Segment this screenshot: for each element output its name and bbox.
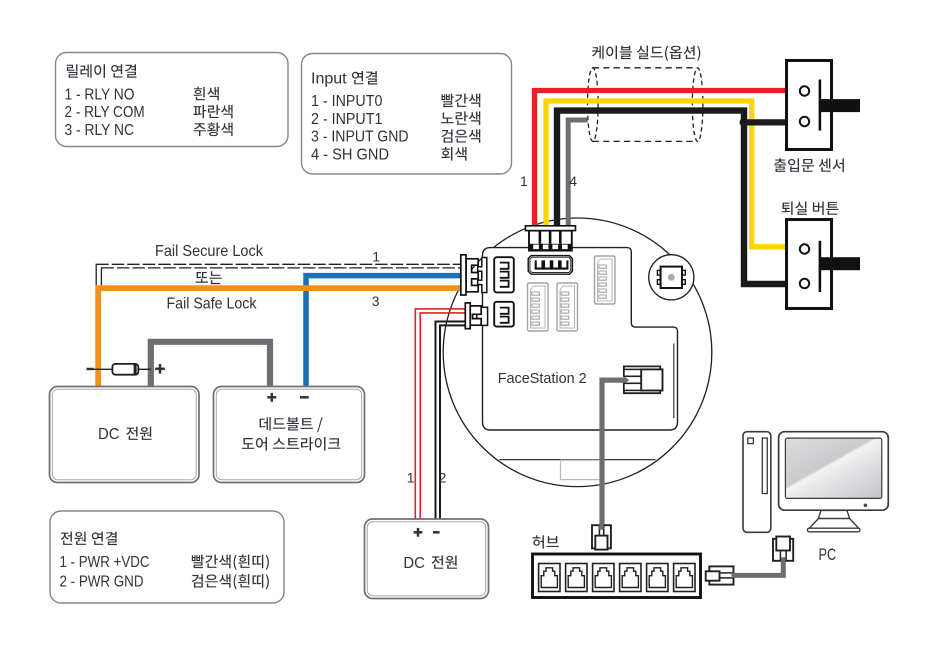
wire: INPUT1 yellow	[546, 101, 787, 247]
label 케이블 실드(옵션) cable shield	[592, 46, 700, 61]
label 전원 (power supply 2)	[432, 555, 457, 568]
input legend box	[302, 54, 512, 175]
door sensor (출입문 센서)	[787, 61, 861, 150]
label 또는 (or)	[196, 271, 222, 284]
label relay legend title 릴레이 연결	[67, 64, 136, 78]
ethernet port on PCB	[624, 366, 663, 393]
svg-text:2: 2	[439, 469, 447, 485]
svg-text:4 - SH GND: 4 - SH GND	[311, 146, 389, 163]
wire: deadbolt + gray	[151, 342, 270, 388]
label power legend title 전원 연결	[61, 532, 117, 546]
cable shield (optional) dashed cylinder	[593, 68, 698, 142]
DC power supply 2 (DC 전원)	[365, 519, 489, 599]
label 빨간색(흰띠)	[192, 555, 269, 571]
svg-text:3 - RLY NC: 3 - RLY NC	[65, 122, 135, 139]
label 허브 hub	[533, 535, 559, 549]
tamper switch	[649, 255, 694, 300]
svg-text:Fail Secure Lock: Fail Secure Lock	[155, 243, 264, 260]
minus sign at DC1	[87, 368, 94, 371]
unused connector (gray) 2	[557, 283, 578, 331]
wire: PWR GND black(white stripe)	[436, 322, 466, 520]
label 파란색 blue	[193, 105, 232, 119]
wire: INPUT GND black	[557, 111, 787, 284]
PC monitor	[779, 432, 889, 532]
plus sign at DC1	[155, 364, 165, 374]
svg-text:1: 1	[407, 469, 415, 485]
minus sign DC2	[433, 531, 440, 534]
svg-text:FaceStation 2: FaceStation 2	[498, 370, 587, 387]
relay connector (3-pin, left)	[461, 255, 487, 295]
power connector (2-pin, left)	[465, 303, 487, 329]
plus sign deadbolt	[267, 393, 276, 402]
svg-text:4: 4	[569, 173, 577, 189]
svg-text:DC: DC	[403, 555, 425, 572]
svg-text:2 - RLY COM: 2 - RLY COM	[65, 104, 145, 121]
wire: SH GND gray	[568, 120, 587, 227]
label 퇴실 버튼 exit button	[782, 201, 839, 215]
RJ45 plug into hub	[592, 523, 611, 550]
PC tower	[743, 432, 771, 533]
svg-text:2 - INPUT1: 2 - INPUT1	[311, 111, 382, 128]
label 흰색 white	[194, 87, 219, 101]
PCB outline	[483, 248, 678, 430]
svg-text:DC: DC	[98, 426, 120, 443]
RJ45 plug under PC	[773, 537, 793, 563]
exit button (퇴실 버튼)	[787, 220, 861, 309]
label 출입문 센서 door sensor	[774, 158, 844, 172]
deadbolt / door strike box	[214, 387, 365, 483]
svg-text:2 - PWR GND: 2 - PWR GND	[60, 574, 144, 591]
device bottom notch	[561, 460, 603, 479]
svg-text:1: 1	[520, 173, 528, 189]
label 검은색 black	[441, 129, 480, 143]
svg-text:PC: PC	[819, 546, 837, 564]
wire: RLY COM blue	[306, 276, 462, 388]
svg-text:1 - PWR +VDC: 1 - PWR +VDC	[60, 554, 150, 571]
wire: INPUT0 red	[535, 91, 787, 228]
power legend box	[50, 511, 284, 603]
wire: RLY NO white (dashed outline)	[96, 264, 462, 286]
svg-text:1 - RLY NO: 1 - RLY NO	[65, 86, 135, 103]
label 데드볼트 /	[260, 417, 323, 432]
svg-text:1 - INPUT0: 1 - INPUT0	[311, 93, 382, 110]
wire: RLY NC orange	[98, 288, 462, 387]
label 검은색(흰띠)	[192, 574, 269, 590]
unused connector (gray) 1	[528, 283, 549, 331]
power connector socket (uu)	[494, 302, 514, 327]
label 회색 gray	[441, 147, 466, 161]
wire: LAN cable (gray) from PCB port to hub plug	[602, 380, 625, 529]
wire: black branch to door sensor	[744, 119, 787, 125]
svg-text:Input: Input	[311, 70, 347, 87]
label 도어 스트라이크	[242, 437, 341, 451]
ethernet hub (허브)	[533, 554, 701, 598]
plus sign DC2	[414, 528, 423, 537]
RJ45 plug at hub right	[706, 566, 734, 584]
unused connector (gray) 3	[595, 256, 616, 304]
diode across DC power leads	[94, 364, 151, 375]
label 빨간색 red	[442, 94, 481, 108]
input terminal block (4-pin, top)	[526, 226, 576, 251]
minus sign deadbolt	[300, 396, 309, 399]
svg-text:1: 1	[372, 248, 380, 264]
label 주황색 orange	[194, 122, 233, 136]
relay output header (uuuu)	[528, 256, 572, 275]
relay legend box	[56, 53, 289, 147]
svg-text:3: 3	[372, 293, 380, 309]
junction dot black wire	[740, 118, 749, 127]
label 전원 (power supply 1)	[126, 427, 151, 440]
device bottom chord line	[500, 459, 656, 461]
svg-text:Fail Safe Lock: Fail Safe Lock	[167, 295, 258, 312]
FaceStation 2 device circle	[443, 218, 712, 487]
wire: PWR +VDC red(white stripe)	[415, 309, 465, 520]
label 연결 (input title)	[352, 71, 377, 85]
label 노란색 yellow	[441, 111, 480, 125]
relay connector socket (uuu)	[494, 257, 514, 292]
wire: hub to PC (gray)	[732, 558, 784, 576]
svg-text:3 - INPUT GND: 3 - INPUT GND	[311, 129, 409, 146]
DC power supply 1 (DC 전원)	[50, 387, 200, 483]
